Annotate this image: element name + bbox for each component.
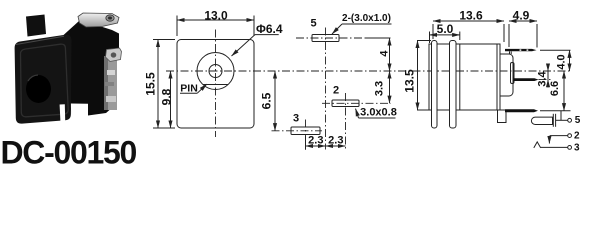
svg-text:3.4: 3.4	[537, 70, 549, 86]
svg-text:2: 2	[333, 85, 339, 97]
svg-text:5: 5	[575, 115, 581, 126]
svg-text:13.0: 13.0	[204, 9, 228, 23]
svg-text:4.9: 4.9	[513, 9, 530, 23]
svg-text:3.0x0.8: 3.0x0.8	[360, 107, 397, 119]
svg-text:4: 4	[379, 50, 391, 57]
svg-text:3: 3	[574, 142, 580, 153]
svg-text:2.3: 2.3	[308, 134, 323, 146]
svg-text:6.5: 6.5	[260, 92, 274, 109]
svg-text:3.3: 3.3	[374, 81, 386, 96]
svg-text:3: 3	[293, 113, 299, 125]
svg-text:9.8: 9.8	[160, 88, 174, 105]
svg-text:15.5: 15.5	[144, 72, 158, 96]
svg-text:13.5: 13.5	[403, 69, 417, 93]
svg-text:4.0: 4.0	[556, 54, 568, 69]
svg-text:6.6: 6.6	[549, 81, 561, 96]
svg-text:2: 2	[574, 131, 580, 142]
svg-text:2-(3.0x1.0): 2-(3.0x1.0)	[342, 13, 391, 24]
svg-text:5.0: 5.0	[437, 22, 454, 36]
svg-text:2.3: 2.3	[328, 134, 343, 146]
svg-text:5: 5	[310, 18, 316, 30]
svg-text:PIN: PIN	[180, 82, 198, 94]
svg-text:DC-00150: DC-00150	[1, 135, 137, 171]
svg-text:13.6: 13.6	[459, 9, 483, 23]
